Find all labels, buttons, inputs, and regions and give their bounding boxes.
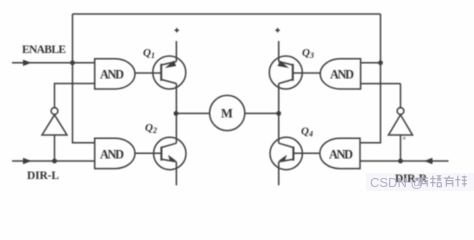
svg-text:CSDN @: CSDN @ bbox=[370, 175, 424, 190]
svg-text:AND: AND bbox=[100, 148, 124, 162]
svg-text:M: M bbox=[221, 107, 233, 121]
svg-text:AND: AND bbox=[329, 148, 353, 162]
svg-text:AND: AND bbox=[330, 68, 354, 82]
svg-text:DIR-L: DIR-L bbox=[27, 170, 59, 182]
svg-text:AND: AND bbox=[100, 68, 124, 82]
svg-text:ENABLE: ENABLE bbox=[22, 44, 66, 56]
